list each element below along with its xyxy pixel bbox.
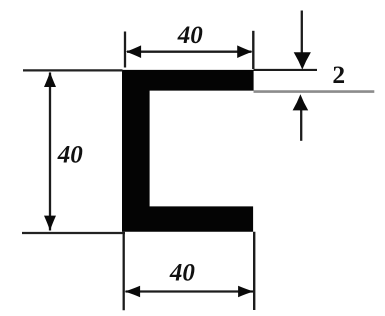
svg-text:40: 40 xyxy=(177,22,204,49)
bottom dimension: right extension line xyxy=(253,232,255,310)
svg-text:2: 2 xyxy=(332,60,345,89)
left dimension top arrowhead xyxy=(44,72,56,87)
top dimension: right extension line xyxy=(252,31,254,69)
thickness dimension: upper leader line xyxy=(301,11,303,59)
top dimension left arrowhead xyxy=(126,45,141,58)
svg-text:40: 40 xyxy=(57,141,84,168)
bottom dimension line xyxy=(126,290,254,292)
left dimension line xyxy=(49,73,51,231)
thickness dimension: lower arrowhead xyxy=(293,94,309,110)
bottom dimension right arrowhead xyxy=(238,286,254,297)
top dimension: left extension line xyxy=(124,32,126,68)
thickness dimension: upper arrowhead xyxy=(294,52,311,69)
top dimension line xyxy=(127,51,252,53)
svg-text:40: 40 xyxy=(169,260,196,287)
thickness dimension: long reference line xyxy=(254,90,375,93)
thickness dimension: top edge tick xyxy=(254,69,318,71)
thickness dimension: lower leader line xyxy=(300,106,302,141)
top dimension right arrowhead xyxy=(237,45,252,58)
left dimension bottom arrowhead xyxy=(44,216,56,231)
left dimension: top extension line xyxy=(23,69,123,71)
bottom dimension: left extension line xyxy=(123,232,125,311)
C-channel profile xyxy=(122,70,254,232)
left dimension: bottom extension line xyxy=(22,232,125,234)
bottom dimension left arrowhead xyxy=(125,286,141,297)
